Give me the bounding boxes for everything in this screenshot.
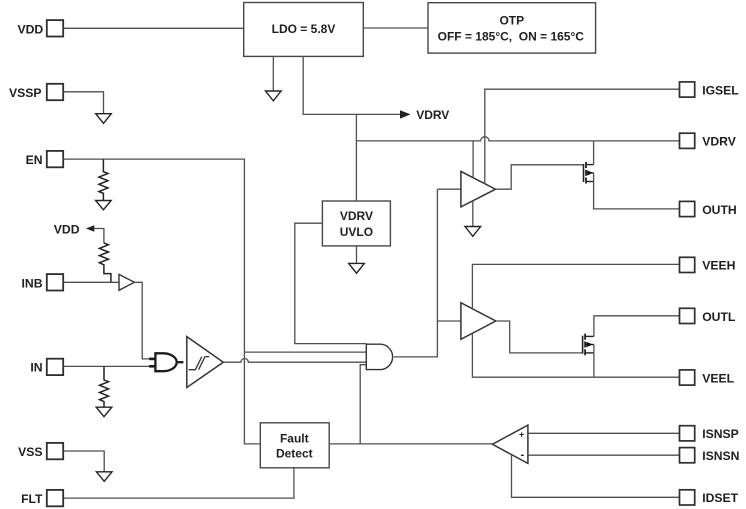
box Fault Detect	[260, 423, 329, 468]
wire INB to buffer	[63, 281, 119, 283]
transistor Q2 low-side MOSFET	[583, 334, 594, 356]
ground high driver	[465, 227, 481, 237]
pin IGSEL	[680, 82, 740, 98]
svg-text:VEEH: VEEH	[702, 259, 735, 273]
svg-text:IDSET: IDSET	[702, 491, 738, 505]
and-gate U3 output AND	[366, 344, 392, 369]
svg-text:Detect: Detect	[276, 446, 313, 460]
svg-text:VDRV: VDRV	[702, 135, 737, 149]
wire IN to AND gate	[63, 365, 155, 367]
svg-text:INB: INB	[22, 276, 43, 290]
wire UVLO to ground	[356, 246, 358, 264]
svg-text:IGSEL: IGSEL	[702, 83, 739, 97]
svg-text:UVLO: UVLO	[340, 225, 373, 239]
svg-text:-: -	[521, 449, 525, 461]
wire IGSEL to high driver	[485, 89, 680, 184]
wire comparator minus to ISNSN	[528, 454, 680, 456]
wire output AND to drivers riser	[394, 189, 438, 357]
svg-text:VSS: VSS	[18, 445, 42, 459]
svg-text:+: +	[519, 430, 524, 440]
svg-text:VEEL: VEEL	[702, 371, 734, 385]
ground VSSP	[96, 114, 112, 124]
wire VSS to ground	[63, 451, 104, 472]
pin ISNSP	[680, 426, 739, 441]
wire high driver to ground	[472, 201, 474, 227]
ground VSS	[96, 472, 112, 482]
comparator U6 current sense	[492, 425, 528, 463]
wire VDRV rail into high driver	[472, 141, 474, 178]
wire LDO output down	[303, 56, 400, 114]
schmitt trigger U2	[187, 337, 224, 388]
wire fault branch to output AND	[360, 365, 366, 444]
svg-text:VDRV: VDRV	[340, 209, 373, 223]
pin VSSP	[9, 84, 63, 100]
pin IDSET	[680, 490, 739, 505]
ground EN	[96, 201, 112, 210]
wire LDO to OTP	[363, 27, 428, 29]
svg-text:IN: IN	[30, 361, 42, 375]
wire IDSET to comparator	[512, 455, 680, 497]
buffer INB	[119, 274, 134, 290]
pin VDRV	[680, 133, 737, 148]
ground UVLO	[349, 263, 365, 273]
svg-text:VSSP: VSSP	[9, 86, 42, 100]
svg-text:LDO = 5.8V: LDO = 5.8V	[272, 22, 336, 36]
wire EN branch to output AND	[244, 351, 366, 353]
wire low MOSFET drain to OUTL	[594, 316, 680, 337]
resistor EN pulldown	[99, 159, 108, 200]
pin VSS	[18, 443, 63, 459]
wire comparator plus to ISNSP	[528, 432, 680, 434]
wire VDD to LDO	[63, 27, 244, 29]
box VDRV UVLO	[322, 201, 390, 246]
pin VEEH	[680, 257, 736, 272]
svg-text:VDD: VDD	[17, 22, 43, 36]
wire fault detect to FLT	[63, 468, 294, 498]
box OTP	[428, 3, 596, 53]
resistor INB pullup	[99, 243, 111, 282]
ground IN	[96, 407, 112, 417]
pin VDD	[17, 20, 63, 36]
svg-text:OTP: OTP	[499, 14, 524, 28]
svg-text:Fault: Fault	[280, 431, 309, 445]
svg-text:ISNSN: ISNSN	[702, 449, 739, 463]
wire MOSFET drain to VDRV rail	[593, 141, 595, 165]
box LDO	[244, 3, 364, 57]
svg-text:OUTL: OUTL	[702, 310, 736, 324]
wire riser to low driver	[437, 320, 461, 322]
driver U4 high-side	[461, 171, 496, 207]
wire low driver to VEEL rail	[472, 333, 679, 377]
node VDD pullup arrow	[54, 222, 104, 243]
driver U5 low-side	[461, 303, 496, 340]
svg-text:FLT: FLT	[21, 492, 43, 506]
wire VDRV rail (hop over IGSEL line)	[357, 137, 680, 141]
svg-text:EN: EN	[26, 153, 43, 167]
wire VDRV net vertical to UVLO	[355, 114, 357, 201]
svg-text:ISNSP: ISNSP	[702, 427, 739, 441]
wire UVLO to output AND	[295, 223, 367, 343]
svg-text:VDRV: VDRV	[416, 108, 449, 122]
svg-text:OUTH: OUTH	[702, 203, 737, 217]
wire schmitt output to output AND (hop over EN line)	[223, 359, 366, 363]
svg-text:VDD: VDD	[54, 222, 80, 236]
wire high driver output to MOSFET gate	[496, 165, 584, 189]
svg-text:OFF = 185°C, ON = 165°C: OFF = 185°C, ON = 165°C	[438, 29, 585, 43]
ground LDO	[266, 91, 282, 101]
wire MOSFET source to OUTH	[594, 173, 680, 209]
transistor Q1 high-side MOSFET	[584, 162, 594, 184]
pin VEEL	[680, 370, 735, 385]
wire buffer output to AND gate	[134, 282, 155, 359]
pin ISNSN	[680, 448, 740, 463]
node VDRV arrow label	[400, 108, 449, 122]
wire VEEH rail to low driver	[472, 264, 679, 309]
and-gate U1 input AND	[149, 353, 183, 371]
wire fault detect to comparator	[329, 443, 492, 445]
pin OUTH	[680, 201, 737, 216]
wire riser to high driver	[437, 188, 461, 190]
pin FLT	[21, 490, 63, 506]
resistor IN pulldown	[100, 366, 109, 407]
pin OUTL	[680, 308, 736, 324]
wire low MOSFET source to VEEL rail	[593, 345, 595, 378]
pin EN	[26, 151, 64, 167]
pin INB	[22, 274, 64, 290]
pin IN	[30, 359, 63, 375]
wire EN horizontal and vertical to fault detect	[63, 159, 260, 444]
wire low driver output to MOSFET gate	[496, 321, 583, 353]
wire LDO to ground	[272, 56, 274, 91]
wire VSSP to ground	[63, 92, 103, 114]
